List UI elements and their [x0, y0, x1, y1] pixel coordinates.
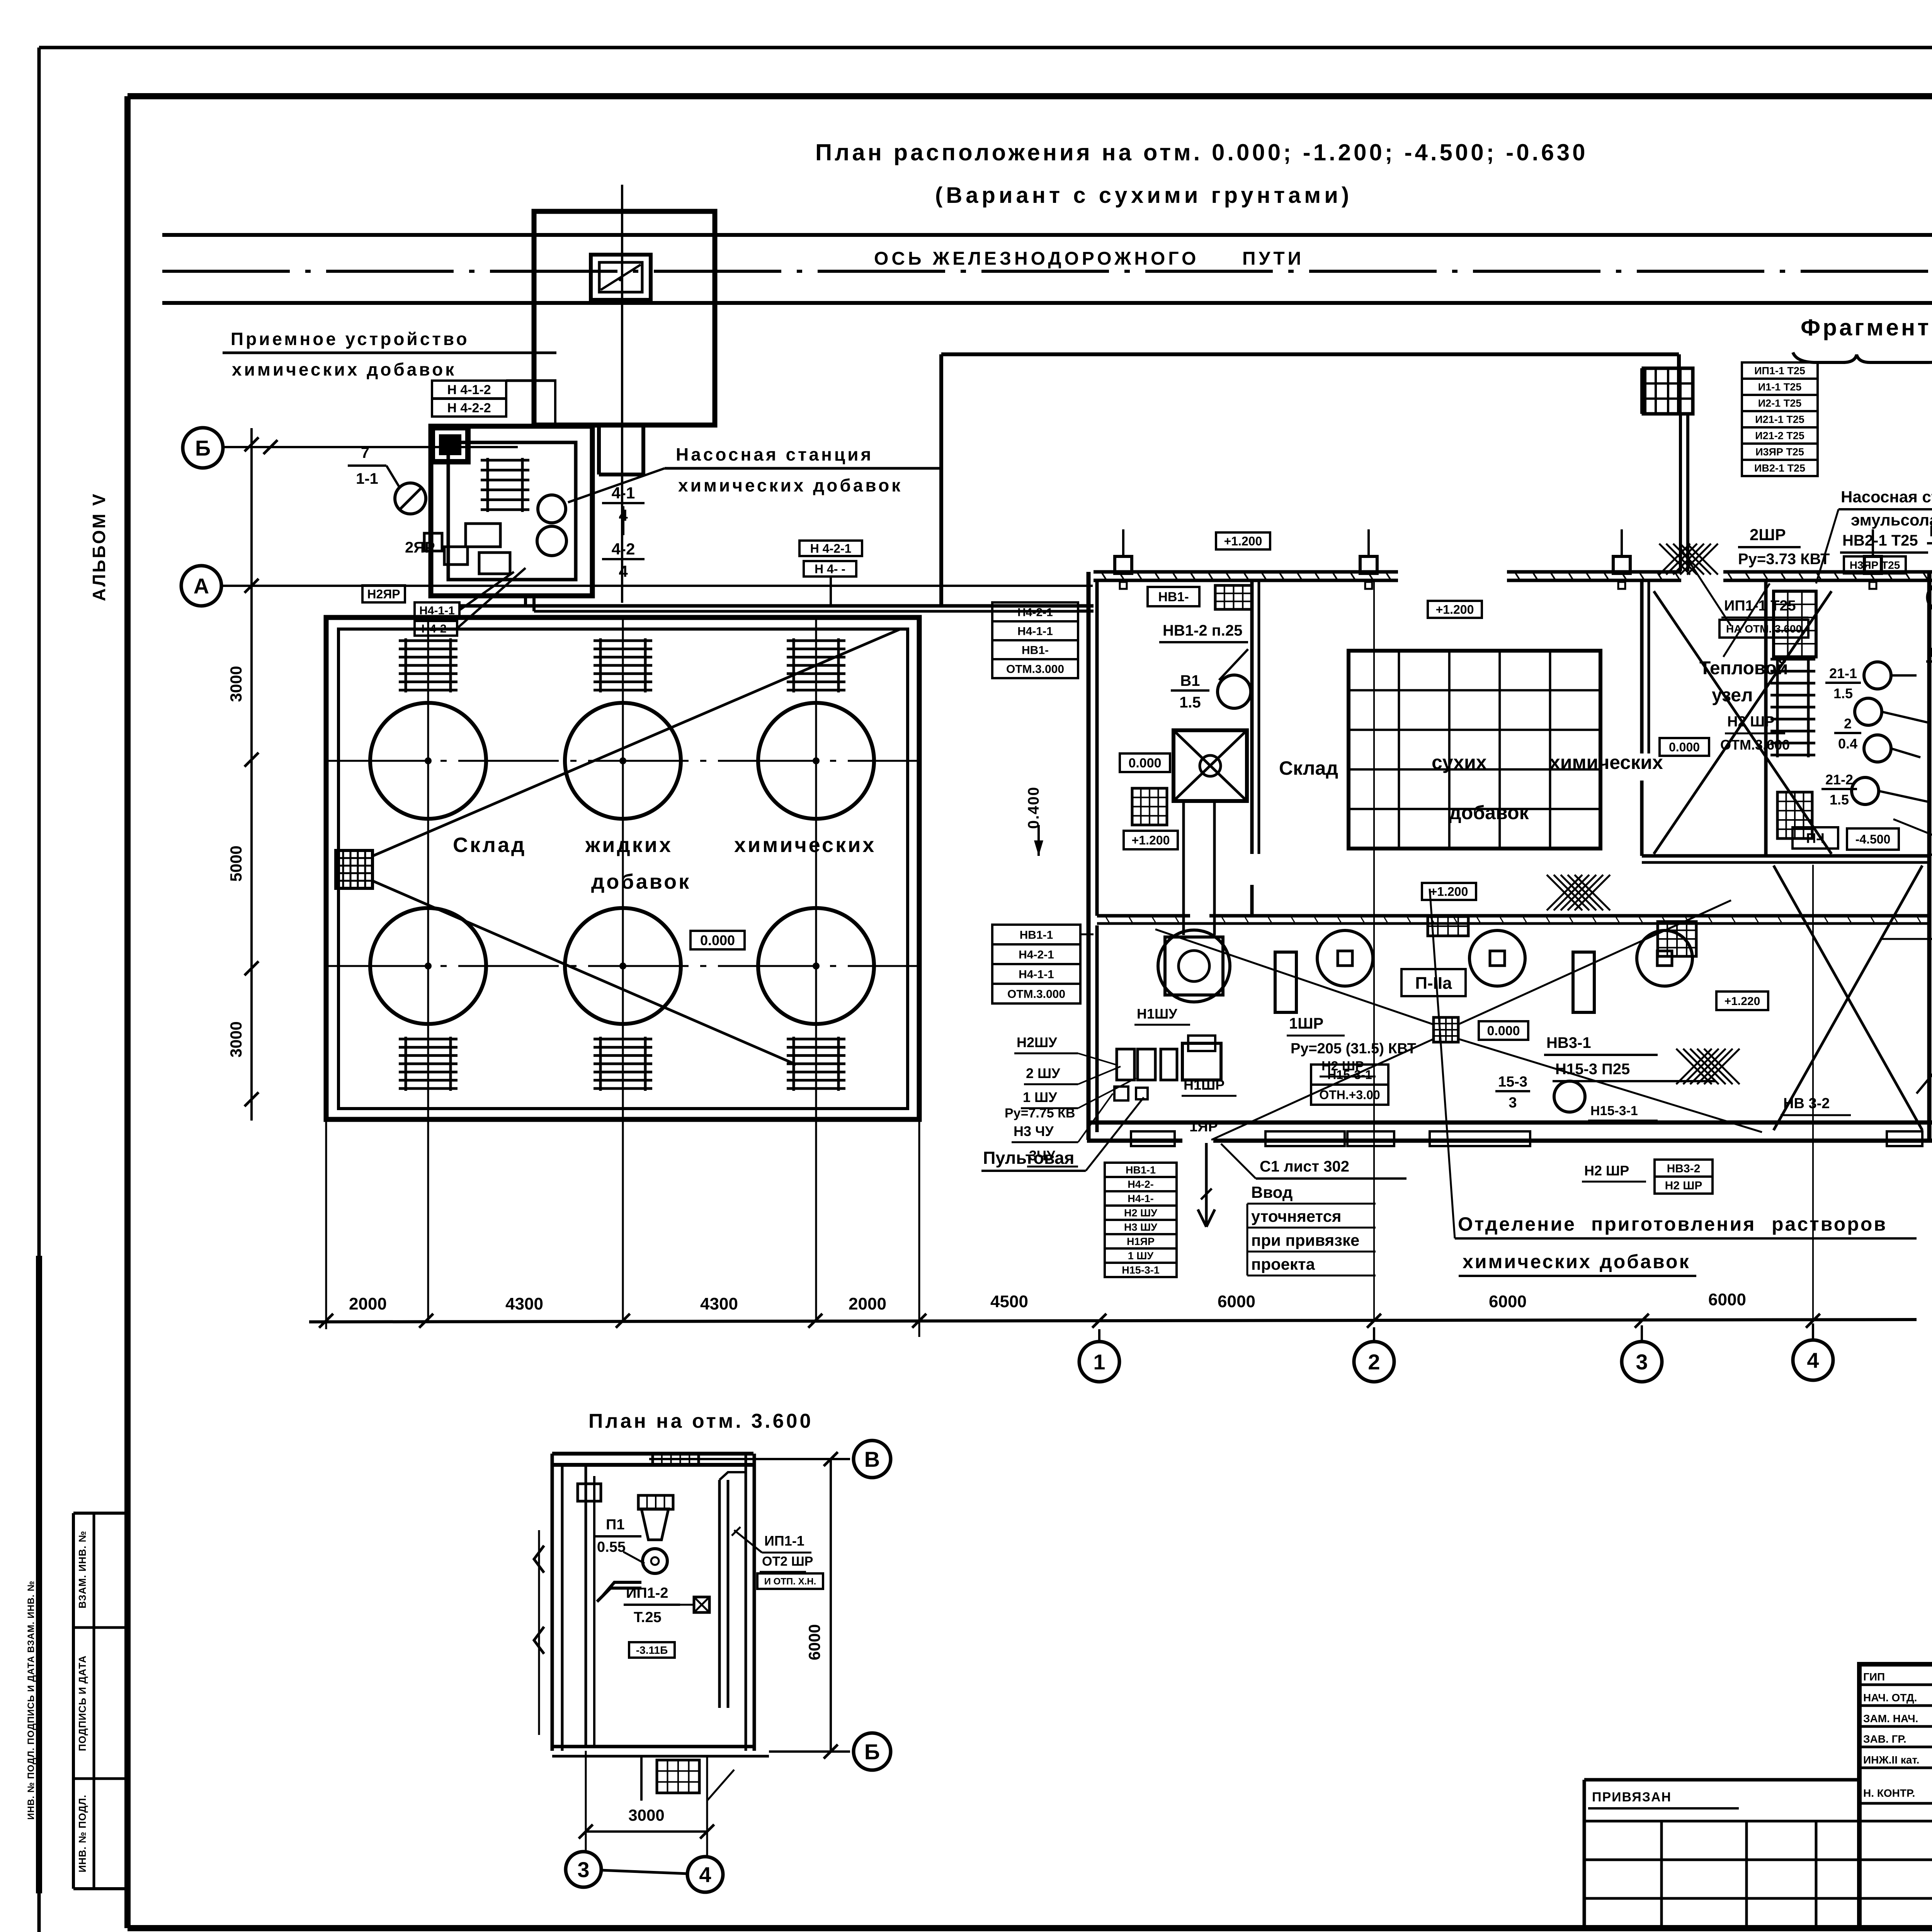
mid partition wall: [1097, 914, 1190, 918]
sheet outer border: [39, 46, 1932, 49]
left margin dark strip: [36, 1256, 42, 1893]
svg-text:Н4-2-1: Н4-2-1: [1019, 948, 1054, 961]
svg-text:А: А: [194, 574, 209, 598]
svg-text:НВ1-1: НВ1-1: [1126, 1164, 1156, 1176]
svg-text:1.5: 1.5: [1179, 694, 1201, 711]
svg-text:НВ1-2 п.25: НВ1-2 п.25: [1163, 622, 1242, 639]
diag leaders teplovoy: [1681, 549, 1731, 626]
svg-text:0.000: 0.000: [1487, 1024, 1520, 1038]
label 0.000 box: [690, 931, 745, 949]
svg-text:В: В: [864, 1447, 880, 1471]
pump room stair hatch: [1776, 657, 1779, 757]
svg-text:И3ЯР Т25: И3ЯР Т25: [1755, 446, 1804, 458]
plan duct elbow: [603, 1582, 641, 1596]
svg-text:3ЧУ: 3ЧУ: [1029, 1148, 1055, 1163]
label 0.000 lower hall: [1479, 1021, 1528, 1040]
svg-text:ИНВ. № ПОДЛ. ПОДПИСЬ И ДАТА В: ИНВ. № ПОДЛ. ПОДПИСЬ И ДАТА ВЗАМ. ИНВ. №: [26, 1580, 36, 1820]
west outside stack upper: [992, 602, 1078, 621]
svg-text:сухих: сухих: [1432, 752, 1487, 773]
svg-text:+1.200: +1.200: [1224, 534, 1262, 548]
svg-text:Б: Б: [195, 436, 211, 460]
svg-text:И ОТП. Х.Н.: И ОТП. Х.Н.: [764, 1577, 816, 1587]
0.000 box right: [1660, 738, 1709, 756]
radiating cable leaders: [1155, 929, 1434, 1025]
svg-text:Н4-2-1: Н4-2-1: [1017, 606, 1053, 619]
west wall lower: [1095, 925, 1099, 1132]
left vertical dim line: [250, 428, 253, 1121]
dry additives storage grid: [1349, 651, 1600, 849]
svg-text:проекта: проекта: [1251, 1255, 1315, 1273]
svg-text:ГИП: ГИП: [1863, 1671, 1885, 1683]
tank T5: [565, 908, 681, 1024]
svg-text:АЛЬБОМ V: АЛЬБОМ V: [89, 492, 109, 601]
railway line bottom rail: [162, 301, 1932, 305]
east wall: [1927, 572, 1932, 1141]
partition teplovoy west: [1640, 580, 1644, 753]
svg-text:Т.25: Т.25: [634, 1609, 662, 1626]
label H4-2-2: [432, 399, 506, 417]
plan hatched valve: [694, 1597, 709, 1612]
plan bottom stair: [657, 1760, 699, 1793]
label NB1- box and hatch: [1148, 587, 1199, 606]
bottom dimension line: [309, 1320, 1917, 1322]
svg-text:эмульсола: эмульсола: [1851, 511, 1932, 529]
svg-text:Н4-2-: Н4-2-: [1128, 1179, 1154, 1190]
tank T1: [370, 703, 486, 819]
label N4-1-1: [415, 602, 459, 618]
svg-text:План на отм. 3.600: План на отм. 3.600: [588, 1410, 813, 1432]
control room cabinets: [1117, 1049, 1134, 1080]
pump circles: [1864, 662, 1891, 689]
svg-text:Ру=3.73 КВТ: Ру=3.73 КВТ: [1738, 551, 1830, 568]
svg-text:0.400: 0.400: [1025, 786, 1042, 829]
tank column axis lines: [427, 618, 429, 1322]
svg-text:+1.220: +1.220: [1725, 995, 1760, 1008]
svg-text:2 ШУ: 2 ШУ: [1026, 1065, 1060, 1081]
north wall window ticks: [1101, 572, 1107, 580]
svg-text:добавок: добавок: [591, 870, 691, 893]
label P-IIa: [1401, 969, 1466, 996]
svg-text:21-2: 21-2: [1825, 772, 1853, 787]
svg-text:химических добавок: химических добавок: [232, 359, 456, 379]
svg-text:4-1: 4-1: [612, 484, 635, 502]
ventilation X-box: [1173, 730, 1247, 801]
svg-text:Н3 ШУ: Н3 ШУ: [1124, 1221, 1158, 1233]
svg-text:4500: 4500: [990, 1292, 1028, 1311]
cable trench to main building: [461, 604, 1094, 608]
axis A line: [223, 585, 1093, 587]
plan 3000 dim: [586, 1830, 707, 1833]
roof hatch flag: [1643, 368, 1693, 414]
railway centerline: [162, 270, 1932, 273]
sklad nefteproduktov X: [1774, 866, 1922, 1130]
svg-text:4-2: 4-2: [612, 540, 635, 558]
tank row axis lines: [328, 760, 917, 762]
svg-text:ОТМ.3.000: ОТМ.3.000: [1006, 663, 1064, 675]
svg-text:НВ1-: НВ1-: [1158, 590, 1189, 604]
mixer circles: [1317, 930, 1373, 986]
yard diagonal walkway 1: [373, 629, 900, 856]
distribution hatch: [1434, 1017, 1458, 1042]
svg-text:ИП1-1 Т25: ИП1-1 Т25: [1754, 365, 1805, 377]
pump room hatch2: [1658, 922, 1696, 956]
pump station entry notch: [432, 428, 468, 462]
svg-text:-4.500: -4.500: [1855, 832, 1891, 846]
svg-text:3: 3: [1636, 1350, 1648, 1374]
svg-text:И21-1 Т25: И21-1 Т25: [1755, 414, 1804, 425]
yard dim extension lines: [325, 1121, 327, 1329]
svg-text:Н2ШУ: Н2ШУ: [1017, 1034, 1057, 1050]
svg-text:ОТ2 ШР: ОТ2 ШР: [762, 1554, 813, 1569]
svg-text:Н2ЯР: Н2ЯР: [367, 587, 400, 601]
svg-text:П-I: П-I: [1806, 830, 1825, 846]
svg-text:+1.200: +1.200: [1430, 885, 1468, 899]
svg-text:Н2 ШУ: Н2 ШУ: [1124, 1207, 1158, 1219]
plan right wall duct: [718, 1480, 721, 1708]
plan left arrows: [534, 1546, 544, 1573]
label H4-1-2: [432, 381, 506, 398]
plan vertical dim 6000: [830, 1459, 832, 1752]
svg-text:Н1-2: Н1-2: [1929, 645, 1932, 660]
tank ladders bottom row: [405, 1037, 407, 1091]
svg-text:Н. КОНТР.: Н. КОНТР.: [1863, 1787, 1915, 1799]
plan fan cone: [641, 1509, 668, 1540]
svg-text:ИП1-1: ИП1-1: [764, 1533, 804, 1549]
yard diagonal walkway 2: [373, 881, 796, 1065]
svg-text:НВ3-1: НВ3-1: [1546, 1034, 1591, 1051]
plan building walls: [552, 1452, 753, 1456]
svg-text:0.000: 0.000: [700, 932, 735, 948]
svg-text:3: 3: [577, 1857, 589, 1882]
svg-text:Н2 ШР: Н2 ШР: [1665, 1179, 1702, 1192]
svg-text:Тепловой: Тепловой: [1699, 658, 1788, 679]
svg-text:ОТМ.3.000: ОТМ.3.000: [1007, 988, 1065, 1000]
svg-text:3000: 3000: [628, 1806, 664, 1824]
svg-text:1ШР: 1ШР: [1289, 1015, 1323, 1032]
svg-text:И2-1 Т25: И2-1 Т25: [1758, 398, 1801, 409]
svg-text:Н2 ШР: Н2 ШР: [1727, 714, 1775, 730]
railway line top rail: [162, 233, 1932, 237]
axis B line: [224, 446, 518, 448]
svg-text:6000: 6000: [805, 1624, 823, 1660]
svg-text:добавок: добавок: [1600, 1251, 1690, 1272]
agitator slabs: [1275, 952, 1296, 1012]
plan top hatch window: [653, 1454, 699, 1465]
svg-text:0.000: 0.000: [1128, 756, 1161, 770]
svg-text:3: 3: [1509, 1095, 1517, 1111]
svg-text:жидких: жидких: [585, 833, 673, 857]
tank ladders top row: [405, 638, 407, 692]
svg-text:3000: 3000: [227, 1021, 245, 1057]
label P-I / -4.500: [1793, 827, 1838, 849]
receiving building south appendix: [597, 425, 601, 474]
svg-text:химических: химических: [734, 833, 876, 857]
svg-text:уточняется: уточняется: [1251, 1207, 1341, 1225]
svg-text:ОТН.+3.00: ОТН.+3.00: [1319, 1088, 1380, 1102]
axis B circle: [1930, 854, 1932, 856]
axis 2 line through building: [1373, 580, 1375, 1320]
svg-text:0.55: 0.55: [597, 1539, 626, 1555]
svg-text:4: 4: [619, 562, 628, 580]
equipment blocks: [466, 524, 500, 547]
south wall: [1087, 1121, 1932, 1125]
svg-text:2000: 2000: [849, 1294, 886, 1313]
label H4-1 box: [804, 561, 856, 577]
partition pump west: [1764, 580, 1768, 856]
west outside lower stack: [1105, 1163, 1177, 1177]
left stamp table: [73, 1512, 129, 1515]
title block outer: [1859, 1664, 1932, 1928]
upper yard ramp rectangle: [941, 352, 1679, 356]
svg-text:ЗАВ. ГР.: ЗАВ. ГР.: [1863, 1733, 1906, 1745]
svg-text:3000: 3000: [227, 666, 245, 702]
svg-text:2: 2: [1368, 1350, 1380, 1374]
svg-text:В1: В1: [1180, 672, 1200, 689]
svg-text:Фрагмент 1: Фрагмент 1: [1801, 315, 1932, 340]
svg-text:Н15-3-1: Н15-3-1: [1327, 1068, 1372, 1082]
svg-text:1 ШУ: 1 ШУ: [1023, 1089, 1057, 1105]
svg-text:узел: узел: [1712, 685, 1753, 706]
svg-text:растворов: растворов: [1772, 1213, 1887, 1235]
wall columns: [1115, 556, 1132, 573]
svg-text:5000: 5000: [227, 845, 245, 881]
svg-text:ПУТИ: ПУТИ: [1242, 248, 1304, 269]
svg-text:1.5: 1.5: [1830, 792, 1849, 808]
svg-text:Н 4-2-2: Н 4-2-2: [447, 401, 491, 415]
personnel rows: [1859, 1684, 1932, 1686]
svg-text:Н4-1-1: Н4-1-1: [1017, 625, 1053, 638]
plan axis V: [649, 1458, 850, 1460]
svg-text:-3.11Б: -3.11Б: [636, 1644, 668, 1656]
label H4-2-1 box: [799, 541, 862, 556]
svg-text:0.000: 0.000: [1669, 740, 1700, 754]
svg-text:Приемное устройство: Приемное устройство: [231, 329, 469, 349]
svg-text:Ру=7.75 КВ: Ру=7.75 КВ: [1005, 1106, 1075, 1121]
tank T4: [370, 908, 486, 1024]
svg-text:НВ1-1: НВ1-1: [1020, 929, 1053, 941]
svg-text:ПРИВЯЗАН: ПРИВЯЗАН: [1592, 1790, 1672, 1804]
svg-text:Ру=205 (31.5) КВТ: Ру=205 (31.5) КВТ: [1291, 1041, 1416, 1057]
svg-text:Н 4- -: Н 4- -: [815, 562, 845, 576]
stair hatch inside pump station: [486, 458, 489, 512]
svg-text:ОТМ.3.600: ОТМ.3.600: [1720, 737, 1790, 753]
svg-text:4300: 4300: [700, 1294, 738, 1313]
tank T3: [758, 703, 874, 819]
svg-text:П1: П1: [606, 1517, 624, 1533]
svg-text:2ШР: 2ШР: [1750, 526, 1786, 544]
svg-text:+1.200: +1.200: [1132, 833, 1170, 847]
receiving building outline: [534, 211, 715, 425]
svg-text:0.4: 0.4: [1838, 736, 1857, 752]
svg-text:НВ1-: НВ1-: [1022, 644, 1049, 656]
svg-text:Н3ЯР Т25: Н3ЯР Т25: [1850, 559, 1900, 571]
west outside stack mid: [992, 925, 1080, 944]
svg-text:Н3 ЧУ: Н3 ЧУ: [1014, 1123, 1054, 1139]
svg-text:2: 2: [1844, 716, 1852, 731]
svg-text:И21-2 Т25: И21-2 Т25: [1755, 430, 1804, 442]
svg-text:15-3: 15-3: [1498, 1074, 1527, 1090]
numbered axis circles 1-4: [1098, 1329, 1100, 1342]
svg-text:1-1: 1-1: [356, 470, 378, 487]
svg-text:Насосная станция: Насосная станция: [676, 444, 873, 464]
receiving building axis line: [621, 185, 623, 603]
svg-text:2000: 2000: [349, 1294, 387, 1313]
svg-text:1.5: 1.5: [1833, 685, 1853, 701]
svg-text:ИНЖ.II кат.: ИНЖ.II кат.: [1863, 1754, 1919, 1766]
svg-text:Н15-3-1: Н15-3-1: [1590, 1104, 1638, 1118]
svg-text:Н1ЯР: Н1ЯР: [1127, 1236, 1155, 1247]
svg-text:План расположения на отм. 0.00: План расположения на отм. 0.000; -1.200;…: [815, 139, 1588, 165]
plan axis B: [769, 1750, 850, 1753]
mixer big circle: [1158, 930, 1230, 1002]
tank T6: [758, 908, 874, 1024]
stairwell hatch west: [1132, 788, 1167, 825]
privyazan table: [1584, 1778, 1859, 1782]
partition sklad west: [1250, 580, 1254, 854]
svg-text:4: 4: [699, 1862, 711, 1887]
label N4-2-1: [415, 621, 457, 636]
svg-text:Н1ШУ: Н1ШУ: [1137, 1006, 1177, 1022]
partition south of pump rooms: [1642, 854, 1929, 858]
svg-text:ИВ2-1 Т25: ИВ2-1 Т25: [1754, 463, 1805, 474]
svg-text:21-1: 21-1: [1829, 665, 1857, 681]
svg-text:И1-1 Т25: И1-1 Т25: [1758, 381, 1801, 393]
svg-text:Н15-3 П25: Н15-3 П25: [1555, 1061, 1630, 1078]
valve circle with slash: [395, 483, 426, 514]
plan axis circles 3-4: [566, 1852, 601, 1887]
svg-text:Н1ШР: Н1ШР: [1184, 1077, 1225, 1093]
north wall segments: [1094, 570, 1398, 574]
svg-text:НВ2-2: НВ2-2: [1929, 523, 1932, 540]
svg-text:НВ3-2: НВ3-2: [1667, 1162, 1701, 1175]
svg-text:Ввод: Ввод: [1251, 1183, 1293, 1201]
svg-text:4: 4: [1807, 1348, 1819, 1372]
plan -3.11 box: [629, 1642, 675, 1658]
svg-text:6000: 6000: [1218, 1292, 1255, 1311]
axis 4 line segment: [1812, 865, 1814, 1320]
svg-text:Н4-1-: Н4-1-: [1128, 1193, 1154, 1204]
svg-text:Н 4-1-2: Н 4-1-2: [447, 383, 491, 397]
tank T2: [565, 703, 681, 819]
svg-text:ИНВ. № ПОДЛ.: ИНВ. № ПОДЛ.: [77, 1794, 88, 1872]
svg-text:2ЯР: 2ЯР: [405, 539, 435, 556]
svg-text:ОСЬ ЖЕЛЕЗНОДОРОЖНОГО: ОСЬ ЖЕЛЕЗНОДОРОЖНОГО: [874, 248, 1199, 269]
svg-text:1ЯР: 1ЯР: [1189, 1119, 1218, 1135]
B2 outlet: [1928, 583, 1932, 611]
small pump square: [424, 533, 442, 551]
svg-text:+1.200: +1.200: [1436, 603, 1474, 617]
svg-text:1 ШУ: 1 ШУ: [1128, 1250, 1154, 1262]
plan duct vertical: [585, 1465, 587, 1747]
svg-text:4300: 4300: [505, 1294, 543, 1313]
pipe rack vertical: [1679, 414, 1682, 571]
duct down: [1182, 801, 1185, 935]
hatch marks: [1547, 875, 1582, 910]
svg-text:Насосная станция: Насосная станция: [1841, 488, 1932, 506]
sheet inner border: [128, 93, 1932, 99]
+1.220 box: [1716, 992, 1768, 1010]
svg-text:приготовления: приготовления: [1591, 1213, 1756, 1235]
svg-text:химических: химических: [1549, 752, 1663, 773]
label +1.200 west: [1124, 831, 1178, 849]
svg-text:С1 лист 302: С1 лист 302: [1260, 1158, 1349, 1175]
svg-text:НАЧ. ОТД.: НАЧ. ОТД.: [1863, 1692, 1917, 1704]
svg-text:6000: 6000: [1489, 1292, 1527, 1311]
svg-text:Н15-3-1: Н15-3-1: [1122, 1264, 1160, 1276]
pump room electric panel: [1774, 591, 1816, 657]
label H15-3-1 boxes: [1311, 1065, 1388, 1085]
svg-text:НВ2-1 Т25: НВ2-1 Т25: [1842, 532, 1918, 549]
svg-text:ВЗАМ. ИНВ. №: ВЗАМ. ИНВ. №: [77, 1531, 88, 1608]
svg-text:ПОДПИСЬ И ДАТА: ПОДПИСЬ И ДАТА: [77, 1655, 88, 1751]
svg-text:химических: химических: [1463, 1251, 1592, 1272]
svg-text:химических добавок: химических добавок: [678, 475, 903, 495]
svg-text:(Вариант с сухими грунтами): (Вариант с сухими грунтами): [935, 183, 1352, 208]
label 0.000 west: [1120, 753, 1170, 772]
svg-text:при привязке: при привязке: [1251, 1231, 1359, 1249]
B1 circle: [1218, 675, 1251, 708]
svg-text:1: 1: [1093, 1350, 1105, 1374]
partition hatch: [1428, 917, 1468, 936]
svg-text:Н4-1-1: Н4-1-1: [1019, 968, 1054, 981]
svg-text:П-IIа: П-IIа: [1415, 974, 1452, 993]
svg-text:Н 4-2-1: Н 4-2-1: [810, 542, 852, 556]
svg-text:Склад: Склад: [1279, 757, 1338, 779]
west wall: [1087, 572, 1091, 1140]
svg-text:Отделение: Отделение: [1458, 1213, 1576, 1235]
svg-text:ИП1-2: ИП1-2: [626, 1585, 668, 1601]
tank yard inner wall: [338, 629, 908, 1109]
teplovoy uzel X: [1654, 591, 1832, 854]
leaders to trench: [459, 572, 514, 610]
partition ticks: [1105, 916, 1110, 923]
south window sills: [1131, 1131, 1175, 1146]
svg-text:6000: 6000: [1708, 1290, 1746, 1309]
svg-text:Н2 ШР: Н2 ШР: [1584, 1163, 1629, 1179]
yard west gate hatch: [336, 850, 372, 888]
liquid additives tank yard outer wall: [326, 617, 919, 1119]
label N2YaR: [362, 585, 405, 602]
top right label stack T25: [1742, 362, 1818, 379]
svg-text:Б: Б: [864, 1740, 880, 1764]
svg-text:ЗАМ. НАЧ.: ЗАМ. НАЧ.: [1863, 1713, 1918, 1725]
pump circles: [538, 495, 566, 523]
axis B circle left: [183, 428, 223, 468]
axis A circle left: [181, 566, 221, 606]
wagon scale symbol: [591, 255, 651, 300]
svg-text:добавок: добавок: [1449, 802, 1529, 823]
pump station building: [431, 426, 592, 596]
upper +1.200 labels: [1216, 532, 1270, 549]
svg-text:Склад: Склад: [453, 833, 526, 857]
